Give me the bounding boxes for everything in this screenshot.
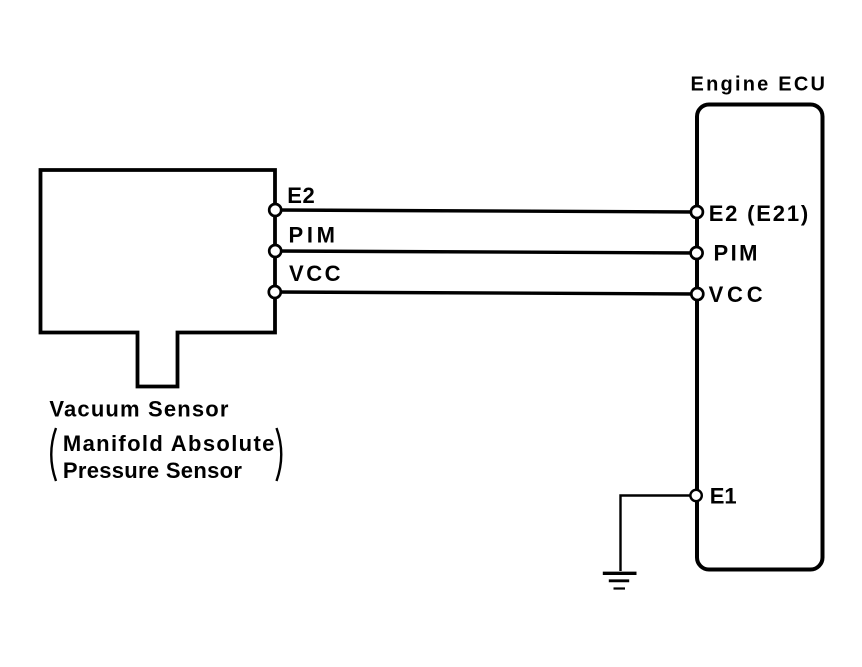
svg-text:PIM: PIM <box>714 240 758 265</box>
ground <box>603 573 637 588</box>
pin E2 sensor <box>269 204 281 216</box>
pin E1 ECU <box>690 490 701 501</box>
right parenthesis <box>277 428 282 481</box>
pin PIM ECU <box>691 247 703 259</box>
svg-text:Vacuum Sensor: Vacuum Sensor <box>49 397 228 422</box>
svg-text:Engine ECU: Engine ECU <box>691 74 826 96</box>
wire E1 to ground <box>621 496 691 572</box>
svg-text:Manifold Absolute: Manifold Absolute <box>63 431 275 456</box>
svg-text:PIM: PIM <box>289 223 336 248</box>
vacuum sensor body <box>41 170 276 387</box>
ECU box <box>697 105 823 570</box>
wire E2 <box>275 210 697 212</box>
svg-text:E2 (E21): E2 (E21) <box>709 201 809 226</box>
svg-text:E2: E2 <box>287 183 315 208</box>
svg-text:Pressure Sensor: Pressure Sensor <box>63 458 242 483</box>
left parenthesis <box>51 428 56 481</box>
pin PIM sensor <box>269 245 281 257</box>
pin E2 ECU <box>691 206 703 218</box>
wire VCC <box>275 292 697 294</box>
pin VCC ECU <box>691 288 703 300</box>
pin VCC sensor <box>269 286 281 298</box>
svg-text:VCC: VCC <box>289 261 341 286</box>
svg-text:E1: E1 <box>710 483 737 508</box>
wire PIM <box>275 251 697 253</box>
svg-text:VCC: VCC <box>709 282 763 307</box>
